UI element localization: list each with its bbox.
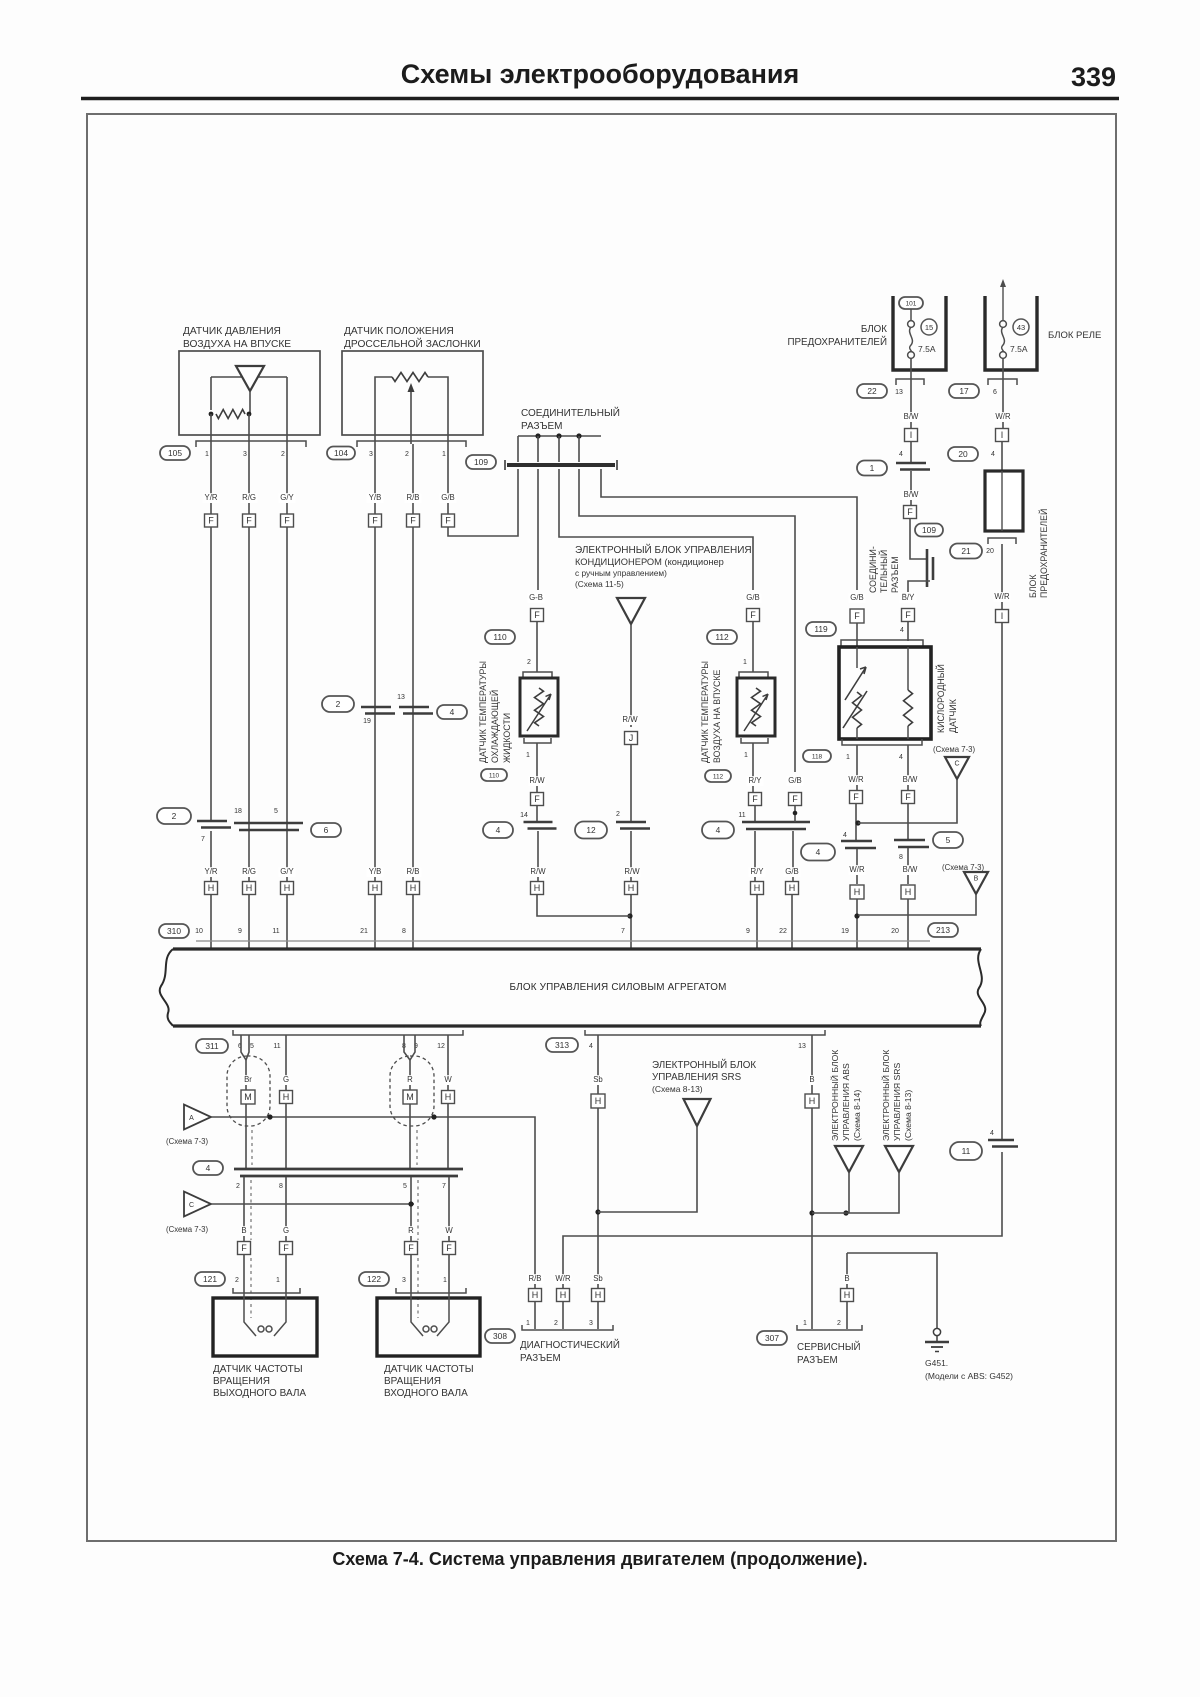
harness code H on Sb — [591, 1094, 605, 1108]
svg-text:РАЗЪЕМ: РАЗЪЕМ — [890, 556, 900, 593]
svg-text:G: G — [283, 1226, 289, 1235]
svg-text:(Схема 11-5): (Схема 11-5) — [575, 579, 624, 589]
harness code H gb branch — [786, 882, 799, 895]
wire B/W oxygen to pcm — [907, 899, 909, 948]
airtemp thermistor arrow — [744, 694, 768, 731]
svg-text:H: H — [905, 887, 912, 897]
svg-text:R/Y: R/Y — [751, 867, 765, 876]
wire R/Y airtemp — [752, 743, 754, 793]
label G — [283, 1075, 290, 1085]
svg-text:F: F — [905, 610, 911, 620]
svg-text:Схемы электрооборудования: Схемы электрооборудования — [401, 59, 800, 89]
connector oval 118 — [803, 750, 831, 762]
speed sensor 122 box — [377, 1298, 480, 1356]
svg-text:G/Y: G/Y — [280, 493, 294, 502]
svg-text:G: G — [283, 1075, 289, 1084]
svg-text:308: 308 — [493, 1331, 507, 1341]
connector oval 105 — [160, 446, 190, 460]
triangle C from 7-3 — [184, 1192, 211, 1217]
svg-text:13: 13 — [895, 389, 903, 396]
svg-text:1: 1 — [442, 451, 446, 458]
svg-text:4: 4 — [990, 1130, 994, 1137]
fuse block vertical label — [1028, 509, 1049, 598]
sensor 105 resistor — [216, 410, 245, 419]
wire net A — [211, 1117, 535, 1302]
wire airtemp to sensor — [752, 621, 754, 672]
svg-text:ОХЛАЖДАЮЩЕЙ: ОХЛАЖДАЮЩЕЙ — [489, 690, 500, 763]
connector oval 17 — [949, 384, 979, 398]
relay fuse symbol — [1000, 321, 1007, 359]
svg-text:БЛОК РЕЛЕ: БЛОК РЕЛЕ — [1048, 330, 1101, 341]
svg-text:ДАТЧИК ТЕМПЕРАТУРЫ: ДАТЧИК ТЕМПЕРАТУРЫ — [478, 661, 488, 763]
label R/B lower — [405, 867, 422, 877]
svg-text:4: 4 — [496, 825, 501, 835]
svg-text:РАЗЪЕМ: РАЗЪЕМ — [520, 1353, 561, 1364]
branch to air temp sensor — [559, 469, 753, 590]
wire R/Y to pcm — [756, 894, 758, 948]
svg-text:H: H — [595, 1096, 602, 1106]
harness code F on R/B — [407, 514, 420, 527]
connector oval 4 mid — [437, 705, 467, 719]
svg-text:ЭЛЕКТРОННЫЙ БЛОК УПРАВЛЕНИЯ: ЭЛЕКТРОННЫЙ БЛОК УПРАВЛЕНИЯ — [575, 543, 752, 556]
svg-text:W: W — [445, 1226, 453, 1235]
svg-text:R/G: R/G — [242, 493, 256, 502]
harness code F on B/Y — [902, 609, 915, 622]
label W — [444, 1075, 452, 1085]
wire R to sensor — [410, 1254, 412, 1293]
svg-text:122: 122 — [367, 1274, 381, 1284]
connector oval 5 — [933, 832, 963, 848]
svg-text:1: 1 — [846, 754, 850, 761]
svg-text:H: H — [854, 887, 861, 897]
oxygen heater lead bottom — [856, 728, 858, 739]
connector oval 307 — [757, 1331, 787, 1345]
svg-text:B/W: B/W — [903, 865, 918, 874]
svg-text:F: F — [792, 794, 798, 804]
svg-text:H: H — [809, 1096, 816, 1106]
wire Bl upper — [811, 1035, 813, 1094]
svg-text:ДАТЧИК ТЕМПЕРАТУРЫ: ДАТЧИК ТЕМПЕРАТУРЫ — [700, 661, 710, 763]
svg-text:R/W: R/W — [529, 776, 545, 785]
label Bl — [809, 1075, 816, 1085]
svg-text:B: B — [974, 876, 979, 883]
label W/R 1 — [995, 412, 1012, 422]
svg-text:B: B — [844, 1274, 849, 1283]
svg-text:(Схема 7-3): (Схема 7-3) — [933, 745, 976, 754]
wire R/B long — [412, 527, 414, 948]
wire R/W from ac ecu — [630, 624, 632, 727]
wire G/Y long — [286, 527, 288, 948]
abs ecu triangle — [835, 1146, 863, 1172]
connector oval 112 bottom — [705, 770, 731, 782]
harness code F on Y/B — [369, 514, 382, 527]
svg-text:339: 339 — [1071, 62, 1116, 92]
svg-text:109: 109 — [474, 457, 488, 467]
svg-text:Sb: Sb — [593, 1274, 603, 1283]
svg-text:20: 20 — [891, 928, 899, 935]
harness code F on G/B — [442, 514, 455, 527]
svg-text:4: 4 — [991, 451, 995, 458]
relay rating circle 43 — [1013, 319, 1029, 335]
svg-text:1: 1 — [443, 1277, 447, 1284]
svg-text:Y/B: Y/B — [369, 867, 382, 876]
harness code F on B/W — [904, 506, 917, 519]
inline connector Y/R — [197, 821, 231, 828]
harness code H on R/B diag — [529, 1289, 542, 1302]
wire B/W jog to junction — [910, 518, 926, 559]
svg-text:3: 3 — [402, 1277, 406, 1284]
svg-text:Br: Br — [244, 1075, 252, 1084]
svg-text:H: H — [283, 1092, 290, 1102]
label B/W 2 — [903, 490, 920, 500]
connector oval 121 — [195, 1272, 225, 1286]
sensor 104 box — [342, 351, 483, 435]
svg-text:B: B — [241, 1226, 246, 1235]
svg-text:R/B: R/B — [529, 1274, 542, 1283]
svg-text:101: 101 — [906, 300, 917, 307]
shield pair right stub b — [410, 1035, 415, 1060]
srs ecu triangle — [684, 1099, 711, 1126]
label R bottom — [408, 1226, 415, 1236]
oxygen heater lead top — [856, 647, 858, 668]
label G/Y lower — [279, 867, 296, 877]
wire B/W segment 1 — [910, 358, 912, 429]
diagram frame — [87, 114, 1116, 1541]
harness code F coolant — [531, 609, 544, 622]
long connector 4 bar — [234, 1169, 463, 1176]
airtemp sensor vertical label — [700, 661, 722, 763]
svg-text:F: F — [853, 792, 859, 802]
svg-text:1: 1 — [526, 752, 530, 759]
srs ecu vertical label right — [880, 1050, 913, 1141]
shield loop left — [227, 1056, 270, 1126]
harness code F on R/G — [243, 514, 256, 527]
svg-text:(Модели с ABS: G452): (Модели с ABS: G452) — [925, 1371, 1013, 1381]
svg-text:РАЗЪЕМ: РАЗЪЕМ — [521, 421, 563, 432]
harness code H airtemp — [751, 882, 764, 895]
wire B/W oxygen 3 — [907, 848, 909, 884]
svg-text:Y/B: Y/B — [369, 493, 382, 502]
wire W lower — [448, 1177, 450, 1242]
svg-text:4: 4 — [899, 451, 903, 458]
junction oval 109b — [915, 524, 943, 537]
connector oval 104 — [327, 447, 355, 460]
connector oval 308 — [485, 1329, 515, 1343]
inline connector coolant — [524, 822, 557, 829]
label W/R oxygen 2 — [849, 865, 866, 875]
harness code I on B/W — [905, 429, 918, 442]
svg-text:21: 21 — [961, 546, 971, 556]
label R/B diag — [527, 1274, 544, 1284]
service connector bracket — [797, 1325, 862, 1330]
harness code F oxygen L — [850, 609, 864, 623]
label R/G lower — [241, 867, 258, 877]
svg-text:ДАТЧИК ДАВЛЕНИЯ: ДАТЧИК ДАВЛЕНИЯ — [183, 326, 281, 337]
svg-text:G/B: G/B — [785, 867, 798, 876]
oxygen heater arrow 2 — [843, 691, 867, 728]
sensor 121 bracket — [233, 1288, 300, 1293]
svg-text:F: F — [284, 516, 290, 526]
wire Y/R to connector 2 — [210, 527, 212, 821]
svg-text:20: 20 — [986, 548, 994, 555]
fuse block lower bracket — [988, 538, 1016, 544]
svg-text:W/R: W/R — [994, 592, 1010, 601]
label G-B coolant — [528, 593, 545, 603]
oxygen sensor vertical label — [935, 664, 958, 733]
svg-text:РАЗЪЕМ: РАЗЪЕМ — [797, 1355, 838, 1366]
fuse id oval 101 — [899, 297, 923, 309]
svg-text:11: 11 — [272, 928, 279, 935]
label G/B branch — [787, 776, 804, 786]
pcm band top edge — [173, 947, 981, 950]
connector oval 119 — [806, 622, 836, 636]
svg-text:4: 4 — [816, 847, 821, 857]
oxygen sensor box — [839, 647, 931, 739]
label W/R diag — [555, 1274, 572, 1284]
junction abs — [843, 1210, 848, 1215]
shield loop right — [390, 1056, 434, 1126]
harness code H on R/W ac — [625, 882, 638, 895]
connector oval 122 — [359, 1272, 389, 1286]
svg-text:F: F — [534, 610, 540, 620]
sensor 105 triangle output — [249, 391, 251, 414]
wire R/W ac to pcm — [630, 894, 632, 948]
label R — [407, 1075, 414, 1085]
shield pair right stub a — [404, 1035, 410, 1060]
branch to coolant sensor — [537, 469, 539, 590]
harness code H on Y/B — [369, 882, 382, 895]
wire R/Y 2 — [754, 805, 756, 822]
harness code F on W bottom — [443, 1242, 456, 1255]
svg-text:8: 8 — [899, 854, 903, 861]
fuse box lower bracket — [896, 379, 924, 385]
connector oval 2 left — [157, 808, 191, 824]
label Br — [242, 1075, 254, 1085]
svg-text:B/W: B/W — [904, 490, 919, 499]
svg-text:311: 311 — [205, 1041, 219, 1051]
svg-text:22: 22 — [867, 386, 877, 396]
relay box outline — [985, 296, 1037, 370]
bracket 313 — [585, 1030, 825, 1035]
harness code H on R/G — [243, 882, 256, 895]
label R/G — [241, 493, 258, 503]
svg-text:4: 4 — [899, 754, 903, 761]
triangle A from 7-3 — [184, 1105, 211, 1130]
svg-text:W/R: W/R — [848, 775, 864, 784]
speed sensor 121 coil — [244, 1293, 286, 1336]
svg-text:ЭЛЕКТРОННЫЙ БЛОК: ЭЛЕКТРОННЫЙ БЛОК — [652, 1059, 756, 1071]
svg-text:Схема 7-4. Система управления: Схема 7-4. Система управления двигателем… — [332, 1549, 867, 1569]
junction connector bars vertical — [927, 549, 933, 587]
svg-text:2: 2 — [527, 659, 531, 666]
svg-text:ВХОДНОГО ВАЛА: ВХОДНОГО ВАЛА — [384, 1388, 468, 1399]
sensor 122 bracket — [396, 1288, 466, 1293]
triangle B to 7-3 — [964, 872, 988, 894]
svg-text:H: H — [560, 1290, 567, 1300]
connector oval 311 — [196, 1039, 228, 1053]
svg-text:ПРЕДОХРАНИТЕЛЕЙ: ПРЕДОХРАНИТЕЛЕЙ — [1038, 509, 1049, 598]
svg-text:C: C — [189, 1202, 194, 1209]
svg-text:R/W: R/W — [624, 867, 640, 876]
svg-text:4: 4 — [206, 1163, 211, 1173]
svg-text:R/W: R/W — [530, 867, 546, 876]
svg-text:H: H — [595, 1290, 602, 1300]
long connector bar airtemp — [742, 822, 810, 829]
svg-text:213: 213 — [936, 925, 950, 935]
shield dash B 2 — [250, 1258, 252, 1318]
harness code M on R — [403, 1090, 417, 1104]
svg-text:17: 17 — [959, 386, 969, 396]
label Y/R — [203, 493, 220, 503]
branch b drop — [558, 436, 560, 462]
harness code H on G — [280, 1091, 293, 1104]
wire R/W coolant 3 — [537, 831, 539, 882]
wire R/B to diag — [534, 1302, 536, 1329]
svg-text:G/B: G/B — [850, 593, 863, 602]
svg-text:14: 14 — [520, 812, 528, 819]
coolant thermistor — [535, 688, 544, 726]
sensor 105 connector bracket — [196, 441, 306, 447]
harness code H on Y/R — [205, 882, 218, 895]
harness code F on R bottom — [405, 1242, 418, 1255]
shield dash B — [251, 1130, 252, 1240]
wire through fuse block — [1001, 471, 1003, 531]
svg-text:ДАТЧИК ЧАСТОТЫ: ДАТЧИК ЧАСТОТЫ — [213, 1364, 303, 1375]
oxygen cell resistor — [904, 690, 913, 726]
connector oval 313 — [546, 1038, 578, 1052]
harness code H on W — [442, 1091, 455, 1104]
svg-text:(Схема 8-14): (Схема 8-14) — [852, 1090, 862, 1141]
connector oval 4 airtemp — [702, 822, 734, 839]
airtemp thermistor — [752, 688, 761, 726]
svg-text:B/Y: B/Y — [902, 593, 915, 602]
svg-text:104: 104 — [334, 448, 348, 458]
branch a drop — [537, 436, 539, 462]
wire service pin2 — [846, 1253, 848, 1329]
svg-text:КОНДИЦИОНЕРОМ (кондиционер: КОНДИЦИОНЕРОМ (кондиционер — [575, 557, 724, 567]
branch c drop — [578, 436, 580, 462]
shield dash R — [417, 1130, 418, 1240]
sensor 104 left leg — [375, 377, 392, 444]
svg-text:H: H — [844, 1290, 851, 1300]
harness code H on Sb low — [592, 1289, 605, 1302]
sensor 105 node right — [247, 412, 252, 417]
label Y/B lower — [367, 867, 384, 877]
svg-text:Y/R: Y/R — [205, 867, 218, 876]
wire G upper — [285, 1035, 287, 1168]
label R/W coolant 2 — [530, 867, 547, 877]
svg-text:F: F — [246, 516, 252, 526]
svg-text:ДАТЧИК ПОЛОЖЕНИЯ: ДАТЧИК ПОЛОЖЕНИЯ — [344, 326, 454, 337]
svg-text:2: 2 — [236, 1183, 240, 1190]
wire Sb upper — [597, 1035, 599, 1094]
svg-text:F: F — [854, 611, 860, 621]
harness code H service — [841, 1289, 854, 1302]
junction Sb — [595, 1209, 600, 1214]
wire W/R segment 1 — [1002, 358, 1004, 429]
svg-text:F: F — [372, 516, 378, 526]
svg-text:121: 121 — [203, 1274, 217, 1284]
ac ecu triangle — [617, 598, 645, 624]
svg-text:3: 3 — [369, 451, 373, 458]
connector oval 213 — [928, 923, 958, 937]
svg-text:ВЫХОДНОГО ВАЛА: ВЫХОДНОГО ВАЛА — [213, 1388, 306, 1399]
svg-text:СОЕДИНИТЕЛЬНЫЙ: СОЕДИНИТЕЛЬНЫЙ — [521, 406, 620, 419]
wire W/R oxygen 3 — [856, 849, 858, 884]
wire Sb mid — [597, 1108, 599, 1329]
svg-text:H: H — [246, 883, 253, 893]
svg-text:118: 118 — [812, 753, 823, 760]
label B/W oxygen 2 — [902, 865, 919, 875]
svg-text:110: 110 — [493, 632, 507, 642]
svg-text:с ручным управлением): с ручным управлением) — [575, 568, 667, 578]
junction node a — [535, 433, 540, 438]
svg-text:22: 22 — [779, 928, 787, 935]
svg-text:ТЕЛЬНЫЙ: ТЕЛЬНЫЙ — [878, 550, 889, 593]
label B/W oxygen — [902, 775, 919, 785]
wire Y/B upper — [374, 444, 376, 514]
label R/B — [405, 493, 422, 503]
svg-text:2: 2 — [336, 699, 341, 709]
svg-text:КИСЛОРОДНЫЙ: КИСЛОРОДНЫЙ — [935, 664, 946, 733]
svg-text:2: 2 — [616, 811, 620, 818]
harness code H coolant — [531, 882, 544, 895]
svg-text:9: 9 — [238, 928, 242, 935]
sensor 104 wiper arrowhead — [408, 383, 415, 392]
connector oval 4 coolant — [483, 822, 513, 838]
label R/W coolant — [529, 776, 546, 786]
svg-text:M: M — [406, 1092, 414, 1102]
connector oval 110 top — [485, 630, 515, 644]
oxygen cell lead bottom — [907, 726, 909, 739]
connector oval 21 — [950, 544, 982, 559]
svg-text:112: 112 — [715, 632, 729, 642]
svg-text:I: I — [1001, 430, 1004, 440]
title underline — [81, 97, 1119, 100]
inline connector B/W — [896, 463, 930, 470]
wire R/W ac segment 2 — [630, 744, 632, 822]
label B bottom — [241, 1226, 248, 1236]
svg-text:H: H — [789, 883, 796, 893]
wire oxygen left to box — [856, 623, 858, 647]
svg-text:R/B: R/B — [407, 867, 420, 876]
relay fuse lead up — [1000, 279, 1006, 321]
sensor 105 amp triangle — [236, 366, 264, 391]
coolant thermistor arrow — [527, 694, 551, 731]
wire W/R segment 3 — [1001, 544, 1003, 609]
label G/B airtemp — [745, 593, 762, 603]
wire R lower — [410, 1177, 412, 1242]
speed sensor 121 box — [213, 1298, 317, 1356]
svg-text:H: H — [754, 883, 761, 893]
svg-text:11: 11 — [273, 1043, 280, 1050]
harness code F airtemp 2 — [749, 793, 762, 806]
connector oval 112 top — [707, 630, 737, 644]
svg-text:H: H — [208, 883, 215, 893]
pcm band left wavy edge — [160, 949, 173, 1026]
wire G lower — [285, 1177, 287, 1242]
svg-text:7: 7 — [621, 928, 625, 935]
svg-text:ПРЕДОХРАНИТЕЛЕЙ: ПРЕДОХРАНИТЕЛЕЙ — [787, 336, 887, 348]
svg-text:H: H — [628, 883, 635, 893]
connector oval 6 — [311, 823, 341, 837]
svg-text:W/R: W/R — [555, 1274, 571, 1283]
fuse box outline — [893, 296, 946, 370]
sensor 105 pin1 lead — [210, 414, 212, 444]
wire coolant to sensor — [536, 621, 538, 672]
label G/B — [440, 493, 457, 503]
wire abs ecu — [848, 1172, 850, 1213]
